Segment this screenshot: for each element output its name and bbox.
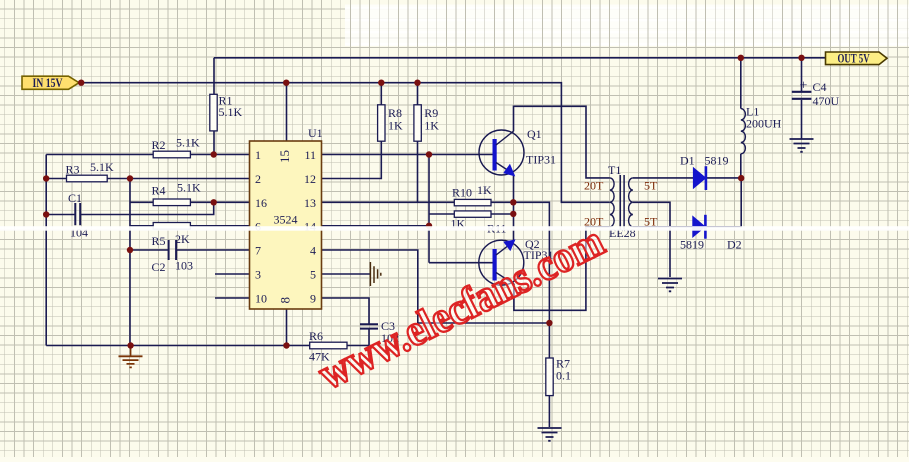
wire pin 3 stub bbox=[215, 273, 250, 275]
svg-text:C4: C4 bbox=[813, 80, 827, 94]
node pin14 bbox=[426, 223, 432, 229]
node D1 cathode L1 bbox=[738, 175, 744, 181]
white scan band bbox=[0, 226, 909, 231]
node R8 top bbox=[378, 80, 384, 86]
svg-text:1K: 1K bbox=[388, 119, 403, 133]
wire pin 5 to ground bbox=[322, 273, 371, 275]
capacitor C4 bbox=[792, 79, 840, 109]
resistor R5 bbox=[152, 223, 191, 249]
capacitor C1 bbox=[68, 191, 88, 240]
transistor Q1 bbox=[479, 127, 556, 175]
svg-text:200UH: 200UH bbox=[746, 117, 782, 131]
resistor R7 bbox=[546, 357, 571, 396]
wire D2 cathode up bbox=[706, 178, 742, 227]
wire Q2 collector to primary bottom bbox=[514, 227, 610, 310]
svg-text:R5: R5 bbox=[152, 234, 166, 248]
svg-text:5.1K: 5.1K bbox=[177, 181, 201, 195]
svg-text:2: 2 bbox=[255, 172, 261, 186]
wire R9 top lead bbox=[417, 83, 419, 105]
wire rail x130 bbox=[129, 179, 131, 346]
wire left rail x45 bbox=[45, 155, 47, 346]
svg-text:R2: R2 bbox=[152, 138, 166, 152]
node Q1 base bbox=[426, 151, 432, 157]
svg-text:16: 16 bbox=[255, 196, 267, 210]
wire R3 leads pin 2 row bbox=[46, 178, 249, 180]
svg-text:11: 11 bbox=[304, 148, 316, 162]
svg-text:12: 12 bbox=[304, 172, 316, 186]
transistor Q2 bbox=[479, 237, 554, 285]
node R3 right pin2 bbox=[127, 175, 133, 181]
svg-text:R10: R10 bbox=[452, 186, 472, 200]
svg-text:R6: R6 bbox=[309, 329, 323, 343]
wire R9 bottom lead bbox=[417, 141, 419, 202]
wire R4 leads pin 16 row bbox=[130, 201, 250, 203]
resistor R1 bbox=[210, 94, 243, 131]
wire R11 right lead bbox=[491, 213, 513, 215]
wire C1 branch bbox=[46, 202, 214, 214]
node pin8 ground bbox=[283, 342, 289, 348]
svg-text:4: 4 bbox=[310, 244, 316, 258]
ground at pin 5 rotated bbox=[370, 262, 380, 286]
svg-text:TIP31: TIP31 bbox=[526, 153, 556, 167]
svg-text:8: 8 bbox=[278, 297, 293, 304]
node IN port junction bbox=[78, 80, 84, 86]
wire secondary center tap to ground bbox=[633, 202, 670, 277]
wire R5 leads pin 6 row bbox=[130, 225, 250, 227]
scan streaks bbox=[345, 5, 909, 47]
wire C4 bottom lead bbox=[801, 100, 803, 139]
resistor R3 bbox=[66, 160, 115, 182]
wire pin 4 current sense route bbox=[322, 250, 550, 323]
wire R11 left lead bbox=[429, 213, 454, 215]
svg-text:C2: C2 bbox=[152, 260, 166, 274]
wire C3 bottom lead bbox=[368, 329, 370, 346]
svg-text:0.1: 0.1 bbox=[556, 369, 571, 383]
wire IN 15V rail to center tap bbox=[81, 83, 610, 203]
node VCC pin15 tap bbox=[283, 80, 289, 86]
ground under R7 bbox=[538, 428, 562, 441]
svg-text:5819: 5819 bbox=[680, 238, 704, 252]
wire pin 13 to R10 bbox=[322, 201, 455, 203]
svg-text:5T: 5T bbox=[644, 179, 658, 193]
wire L1 top lead bbox=[740, 58, 742, 109]
svg-text:1K: 1K bbox=[477, 183, 492, 197]
svg-text:20T: 20T bbox=[584, 179, 604, 193]
svg-text:C1: C1 bbox=[68, 191, 82, 205]
ground left bus bbox=[119, 346, 143, 368]
wire R10 right lead bbox=[491, 201, 513, 203]
svg-text:5.1K: 5.1K bbox=[176, 136, 200, 150]
wire pin 11 to Q1 base bbox=[322, 154, 493, 156]
wire base bus vertical bbox=[428, 155, 430, 263]
wire C2 leads pin 7 row bbox=[130, 249, 250, 251]
wire R7 top lead bbox=[548, 323, 550, 358]
resistor R4 bbox=[152, 181, 202, 206]
wire Q1 emitter to Q2 bbox=[513, 174, 515, 241]
wire C4 top lead bbox=[801, 58, 803, 92]
node ground bus left bbox=[127, 342, 133, 348]
svg-text:+: + bbox=[800, 79, 808, 94]
port IN 15V bbox=[22, 76, 79, 90]
wire R1 feedback drop bbox=[213, 58, 215, 155]
op-amp U1 SG3524 body bbox=[250, 126, 323, 309]
diode D2 bbox=[680, 215, 742, 252]
svg-text:U1: U1 bbox=[308, 126, 323, 140]
svg-text:3524: 3524 bbox=[274, 213, 298, 227]
node L1 top bbox=[738, 55, 744, 61]
svg-text:5819: 5819 bbox=[705, 154, 729, 168]
node R11 right bbox=[510, 211, 516, 217]
wire R8 top lead bbox=[380, 83, 382, 105]
wire R8 bottom to pin 12 bbox=[322, 141, 382, 178]
svg-text:9: 9 bbox=[310, 292, 316, 306]
svg-text:13: 13 bbox=[304, 196, 316, 210]
wire Q1 collector to primary top bbox=[514, 106, 610, 178]
wire Q2 base bbox=[429, 262, 493, 264]
inductor L1 bbox=[741, 105, 782, 154]
node R7 top bbox=[546, 320, 552, 326]
node pin1 R1 R2 bbox=[211, 151, 217, 157]
svg-text:1K: 1K bbox=[424, 119, 439, 133]
wire node emitters junction to R7 bbox=[513, 202, 549, 323]
capacitor C2 bbox=[152, 240, 194, 274]
resistor R2 bbox=[152, 136, 201, 158]
resistor R8 bbox=[378, 105, 403, 141]
wire pin15 VCC stub bbox=[286, 83, 288, 141]
svg-text:15: 15 bbox=[277, 150, 292, 163]
diode D1 bbox=[680, 154, 729, 191]
node R10 right bbox=[510, 199, 516, 205]
transformer T1 bbox=[608, 163, 636, 240]
wire secondary top to D1 bbox=[633, 177, 694, 179]
node C1 left bbox=[43, 211, 49, 217]
wire D1 cathode to node bbox=[706, 177, 741, 179]
svg-text:103: 103 bbox=[175, 259, 193, 273]
ground under C4 bbox=[790, 139, 814, 152]
svg-text:5.1K: 5.1K bbox=[219, 105, 243, 119]
wire OUT 5V top rail bbox=[214, 57, 826, 59]
resistor R9 bbox=[414, 105, 439, 141]
svg-text:7: 7 bbox=[255, 244, 261, 258]
svg-text:D1: D1 bbox=[680, 154, 695, 168]
svg-text:2K: 2K bbox=[175, 232, 190, 246]
svg-text:R3: R3 bbox=[66, 163, 80, 177]
wire pin 1 row bbox=[46, 154, 249, 156]
resistor R10 bbox=[452, 183, 492, 206]
svg-text:OUT 5V: OUT 5V bbox=[838, 52, 870, 66]
wire ground bus bbox=[46, 345, 369, 347]
resistor R11 bbox=[451, 211, 507, 236]
svg-text:T1: T1 bbox=[608, 163, 621, 177]
svg-text:3: 3 bbox=[255, 268, 261, 282]
wire secondary bottom to D2 bbox=[633, 226, 693, 228]
port OUT 5V bbox=[826, 52, 888, 66]
resistor R6 bbox=[309, 329, 347, 364]
svg-text:1: 1 bbox=[255, 148, 261, 162]
svg-text:IN 15V: IN 15V bbox=[33, 77, 63, 90]
wire pin 9 to C3 bbox=[322, 298, 370, 324]
svg-text:Q1: Q1 bbox=[527, 127, 542, 141]
node R3 left bbox=[43, 175, 49, 181]
wire L1 bottom lead bbox=[740, 154, 742, 178]
wire pin 10 stub bbox=[215, 297, 250, 299]
svg-text:10: 10 bbox=[255, 292, 267, 306]
node pin16 C1 branch bbox=[211, 199, 217, 205]
svg-text:D2: D2 bbox=[727, 238, 742, 252]
svg-text:470U: 470U bbox=[813, 94, 840, 108]
node C2 left bbox=[127, 247, 133, 253]
wire R7 bottom lead bbox=[548, 396, 550, 427]
wire pin 8 stub bbox=[286, 309, 288, 346]
svg-text:5: 5 bbox=[310, 268, 316, 282]
node C4 top bbox=[798, 55, 804, 61]
wire pin 14 bbox=[322, 225, 430, 227]
svg-text:5.1K: 5.1K bbox=[90, 160, 114, 174]
svg-text:R4: R4 bbox=[152, 184, 166, 198]
capacitor C3 bbox=[360, 319, 399, 345]
node R9 top bbox=[414, 80, 420, 86]
ground secondary center bbox=[658, 279, 682, 292]
